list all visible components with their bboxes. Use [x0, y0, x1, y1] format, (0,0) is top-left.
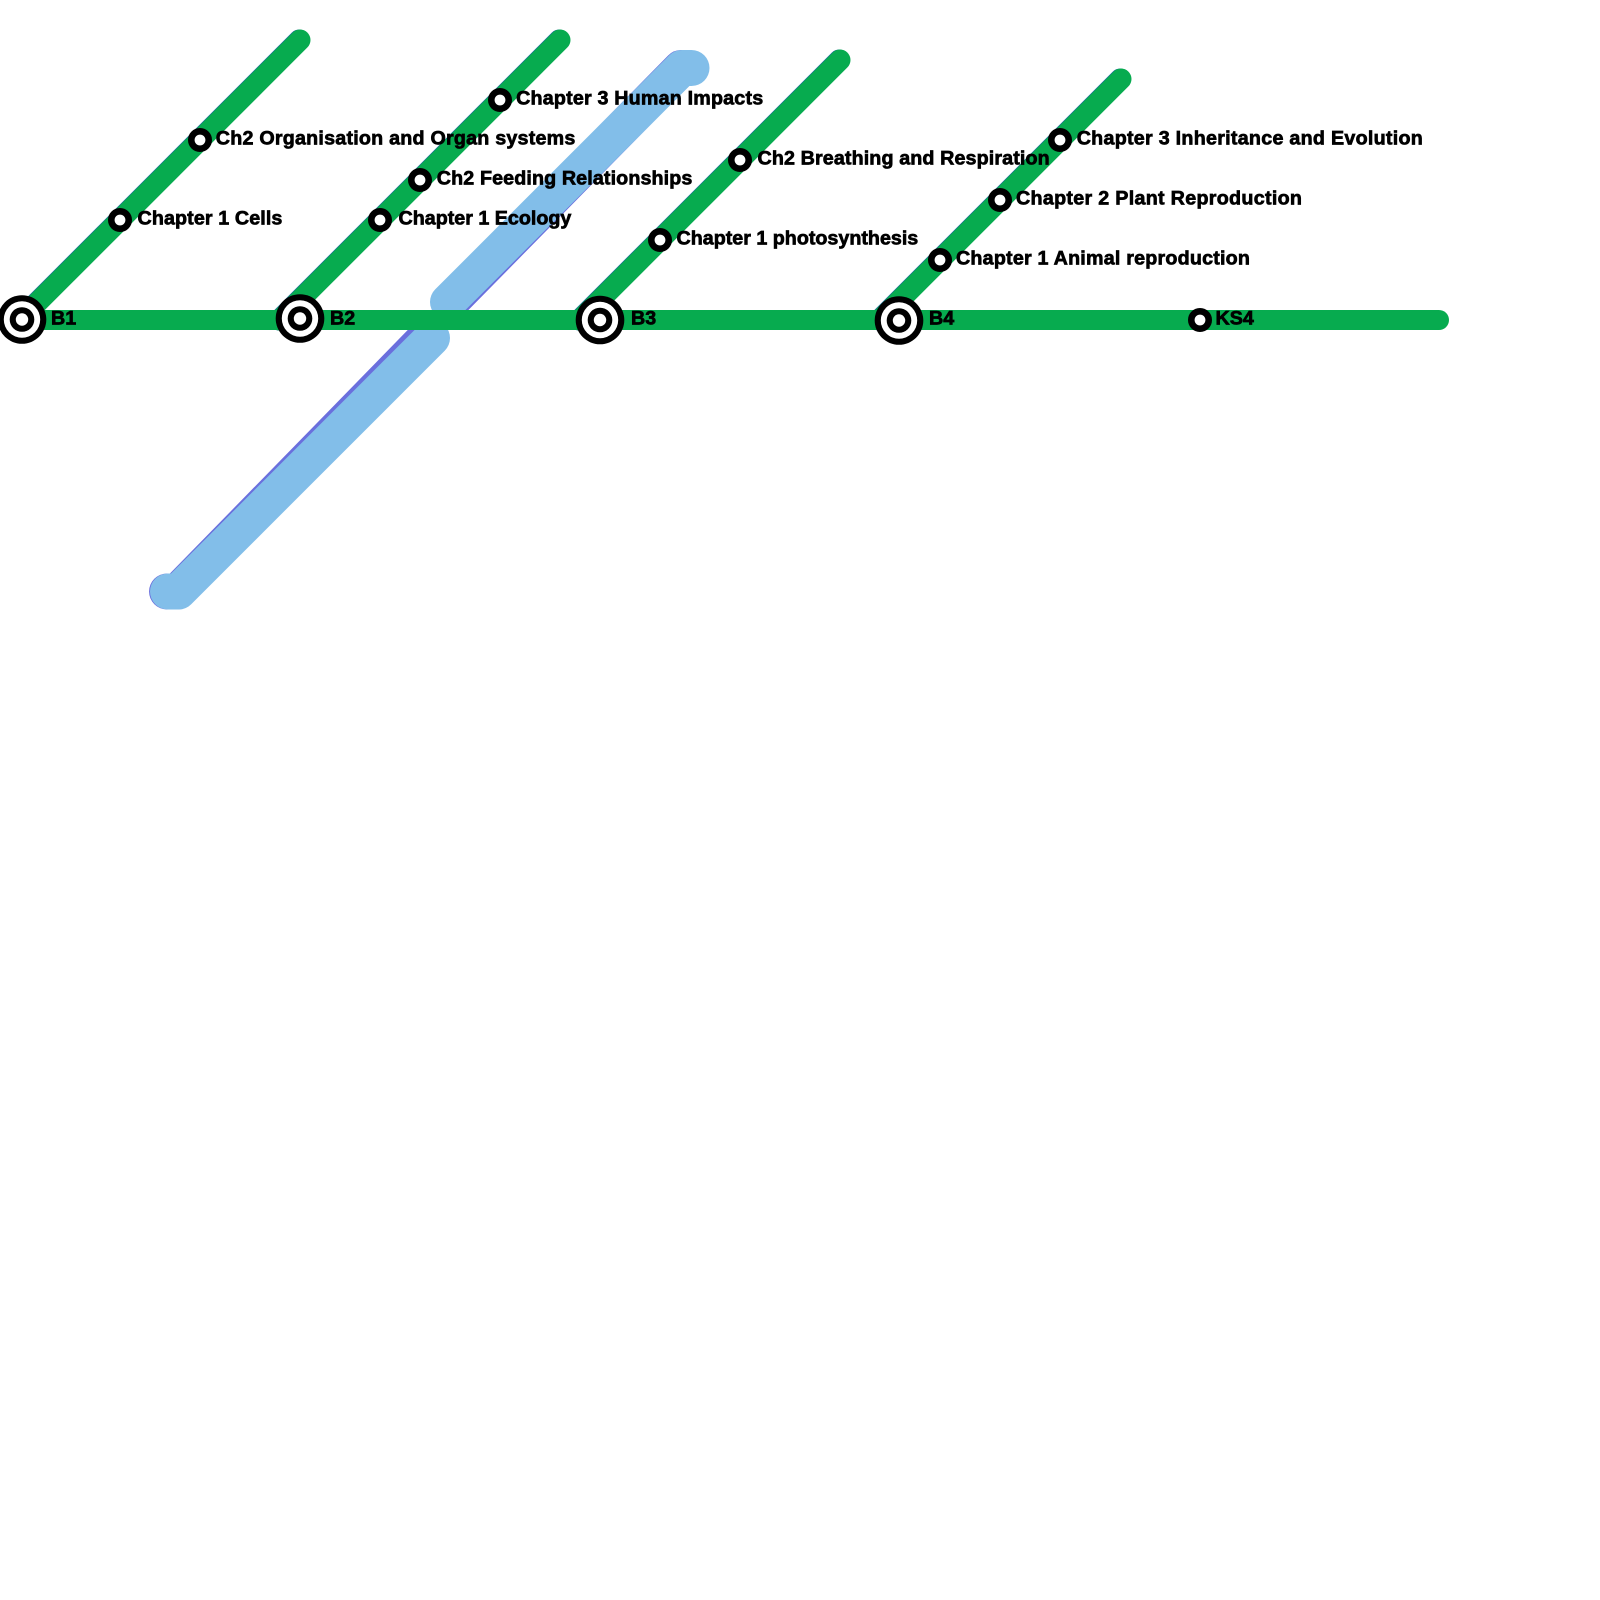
svg-text:Ch2 Feeding Relationships: Ch2 Feeding Relationships	[437, 168, 693, 190]
svg-text:B3: B3	[631, 308, 656, 330]
svg-text:Chapter 3 Inheritance and Evol: Chapter 3 Inheritance and Evolution	[1077, 128, 1423, 150]
svg-text:KS4: KS4	[1216, 308, 1254, 330]
svg-text:Chapter 3 Human Impacts: Chapter 3 Human Impacts	[516, 88, 763, 110]
svg-text:Chapter 1 Cells: Chapter 1 Cells	[138, 208, 283, 230]
svg-text:Ch2 Organisation and Organ sys: Ch2 Organisation and Organ systems	[216, 128, 576, 150]
svg-text:B4: B4	[929, 308, 954, 330]
svg-text:B1: B1	[51, 308, 76, 330]
svg-text:Ch2 Breathing and Respiration: Ch2 Breathing and Respiration	[758, 148, 1050, 170]
svg-text:Chapter 1 Ecology: Chapter 1 Ecology	[399, 208, 572, 230]
svg-text:Chapter 1 photosynthesis: Chapter 1 photosynthesis	[677, 228, 919, 250]
svg-text:Chapter 1 Animal reproduction: Chapter 1 Animal reproduction	[956, 248, 1250, 270]
svg-text:Chapter 2 Plant Reproduction: Chapter 2 Plant Reproduction	[1016, 188, 1302, 210]
svg-text:B2: B2	[330, 308, 355, 330]
